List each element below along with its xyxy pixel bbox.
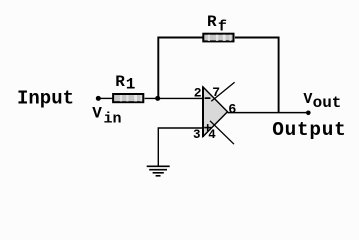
svg-text:2: 2 bbox=[194, 85, 202, 100]
node Vin bbox=[96, 96, 101, 101]
wire output bbox=[228, 112, 309, 114]
wire bbox=[145, 97, 204, 99]
ground bbox=[147, 166, 170, 176]
svg-text:1: 1 bbox=[126, 76, 136, 94]
node junction bbox=[155, 96, 160, 101]
minus marker bbox=[205, 97, 211, 99]
resistor Rf bbox=[203, 34, 233, 42]
resistor R1 bbox=[113, 94, 143, 102]
plus marker bbox=[204, 124, 211, 131]
svg-text:4: 4 bbox=[208, 128, 216, 142]
wire bbox=[158, 128, 203, 166]
wire bbox=[158, 38, 202, 99]
pin 7 power line bbox=[211, 82, 234, 101]
svg-text:V: V bbox=[303, 91, 312, 108]
svg-text:Input: Input bbox=[17, 87, 74, 109]
pin 4 power line bbox=[210, 121, 234, 144]
op-amp U1 bbox=[203, 87, 228, 138]
svg-text:R: R bbox=[115, 73, 125, 91]
svg-text:6: 6 bbox=[228, 103, 236, 118]
node Vout bbox=[306, 111, 311, 116]
svg-text:Output: Output bbox=[272, 119, 346, 141]
svg-text:in: in bbox=[104, 111, 122, 128]
label Vin bbox=[92, 105, 121, 128]
svg-text:R: R bbox=[207, 13, 217, 31]
svg-text:out: out bbox=[313, 94, 342, 112]
svg-text:7: 7 bbox=[212, 85, 220, 100]
label R1 bbox=[115, 73, 135, 94]
svg-text:V: V bbox=[92, 105, 102, 123]
wire bbox=[98, 97, 112, 99]
label Vout bbox=[303, 91, 341, 112]
svg-text:3: 3 bbox=[193, 128, 201, 142]
label Rf bbox=[207, 13, 227, 35]
svg-text:f: f bbox=[218, 19, 227, 36]
wire bbox=[235, 38, 279, 113]
